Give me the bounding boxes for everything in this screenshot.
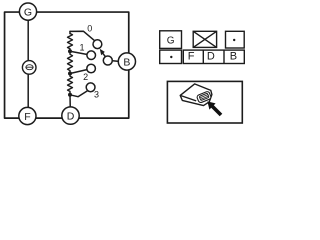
terminal B label bbox=[123, 57, 130, 69]
pinout label D bbox=[207, 51, 215, 63]
pinout table cell G bbox=[160, 31, 182, 49]
terminal G label bbox=[24, 7, 32, 19]
contact 3 label bbox=[94, 89, 99, 99]
junction node 3 bbox=[68, 93, 72, 97]
switch common contact bbox=[103, 56, 112, 65]
svg-text:1: 1 bbox=[79, 43, 84, 53]
svg-text:3: 3 bbox=[94, 89, 99, 99]
wire common contact to terminal B bbox=[112, 60, 119, 63]
switch wiper arrowhead bbox=[100, 49, 105, 56]
wire junction 3 to terminal D bbox=[69, 95, 71, 110]
lamp symbol outer circle bbox=[22, 61, 36, 75]
wire junction 3 to contact 3 bbox=[70, 91, 88, 97]
resistor R3 bbox=[68, 74, 73, 95]
pinout dot top right bbox=[233, 39, 235, 41]
svg-text:2: 2 bbox=[83, 72, 88, 82]
pinout table empty cavity (top right) bbox=[226, 31, 245, 48]
pinout dot bottom left bbox=[170, 56, 172, 58]
terminal G bbox=[19, 3, 36, 20]
contact 1 label bbox=[79, 43, 84, 53]
switch contact 3 bbox=[86, 83, 95, 92]
svg-text:B: B bbox=[123, 57, 130, 69]
connector face plate bbox=[196, 91, 211, 103]
wire resistor chain top stub bbox=[69, 31, 71, 33]
pinout label B bbox=[230, 51, 237, 63]
terminal D bbox=[62, 107, 79, 124]
junction node 1 bbox=[68, 49, 72, 53]
svg-text:0: 0 bbox=[87, 23, 92, 33]
pinout label F bbox=[188, 51, 195, 63]
svg-text:B: B bbox=[230, 51, 237, 63]
wire junction 1 to contact 1 bbox=[70, 51, 88, 54]
pinout table empty cavity (bottom left) bbox=[160, 50, 182, 63]
switch contact 2 bbox=[87, 64, 96, 73]
svg-text:G: G bbox=[167, 35, 175, 46]
pointer arrow to connector bbox=[207, 101, 222, 116]
pinout table cells F D B bbox=[183, 50, 244, 63]
terminal F label bbox=[24, 111, 30, 123]
pinout label G bbox=[167, 35, 175, 46]
wire junction 2 to contact 2 bbox=[70, 69, 88, 73]
resistor R2 bbox=[68, 51, 73, 73]
terminal B bbox=[118, 53, 135, 70]
contact 2 label bbox=[83, 72, 88, 82]
wire G to lamp to F (left vertical) bbox=[27, 12, 29, 111]
switch contact 1 bbox=[87, 51, 96, 60]
wire resistor top to contact 0 bbox=[70, 31, 95, 41]
switch wiper arm bbox=[103, 53, 106, 56]
connector body (isometric housing) bbox=[180, 84, 212, 106]
svg-text:G: G bbox=[24, 7, 32, 19]
connector illustration frame bbox=[167, 81, 242, 123]
switch contact 0 bbox=[93, 40, 102, 49]
contact 0 label bbox=[87, 23, 92, 33]
resistor R1 bbox=[68, 34, 73, 52]
pinout table blocked cell (crossed box) bbox=[193, 31, 216, 47]
outer circuit box bbox=[5, 12, 129, 118]
terminal D label bbox=[67, 111, 75, 123]
junction node 2 bbox=[68, 72, 72, 76]
svg-text:D: D bbox=[67, 111, 75, 123]
svg-text:F: F bbox=[24, 111, 30, 123]
svg-text:F: F bbox=[188, 51, 195, 63]
lamp symbol inner element bbox=[26, 65, 33, 70]
svg-text:D: D bbox=[207, 51, 215, 63]
terminal F bbox=[19, 107, 36, 124]
